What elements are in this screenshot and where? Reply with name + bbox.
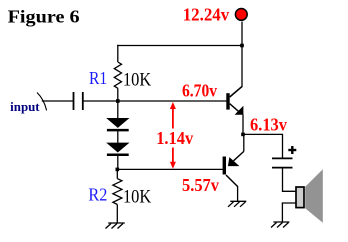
wire Q1 emitter down: [242, 115, 244, 135]
svg-text:12.24v: 12.24v: [183, 5, 230, 25]
supply terminal (red circle): [235, 9, 247, 21]
capacitor C1: [74, 92, 83, 110]
wire top rail: [117, 45, 242, 47]
wire output node to capacitor: [243, 134, 283, 157]
svg-text:Figure 6: Figure 6: [8, 7, 80, 27]
speaker cone: [305, 169, 323, 223]
wire diode bottom to Q2 base: [117, 168, 222, 170]
wire D2 to bottom junction: [117, 155, 119, 170]
diode D2: [106, 143, 129, 155]
svg-text:1.14v: 1.14v: [156, 128, 193, 148]
capacitor C2 (electrolytic): [272, 158, 293, 167]
transistor Q1: [226, 87, 243, 115]
ground (speaker): [271, 222, 289, 228]
svg-text:R2: R2: [88, 185, 107, 205]
resistor R1: [114, 45, 121, 102]
plus sign: [288, 146, 296, 154]
junction diode top: [116, 99, 120, 103]
wire D1 to D2: [117, 130, 119, 143]
ground (Q2 collector): [228, 201, 246, 207]
junction output node: [241, 133, 245, 137]
ground (R2): [106, 223, 125, 229]
wire speaker bottom to ground: [282, 203, 295, 222]
wire junction to D1: [117, 101, 119, 119]
svg-text:5.57v: 5.57v: [182, 175, 219, 195]
svg-text:10K: 10K: [123, 70, 152, 90]
svg-text:input: input: [10, 100, 40, 114]
junction top rail: [240, 44, 244, 48]
wire supply vertical: [241, 22, 243, 88]
measure arrow up (1.14v): [170, 102, 176, 129]
input terminal arc: [37, 93, 47, 111]
measure arrow down (1.14v): [170, 148, 176, 169]
svg-text:10K: 10K: [123, 188, 152, 208]
wire capacitor to Q1 base: [83, 100, 227, 102]
speaker driver box: [296, 187, 304, 208]
junction diode bottom: [116, 168, 120, 172]
diode D1: [106, 118, 129, 130]
svg-text:6.13v: 6.13v: [250, 114, 287, 134]
resistor R2: [113, 169, 122, 223]
transistor Q2 (PNP): [223, 135, 244, 202]
wire input to capacitor: [42, 100, 74, 102]
svg-text:6.70v: 6.70v: [182, 80, 217, 100]
wire capacitor to speaker top: [283, 168, 296, 192]
svg-text:R1: R1: [89, 68, 107, 88]
